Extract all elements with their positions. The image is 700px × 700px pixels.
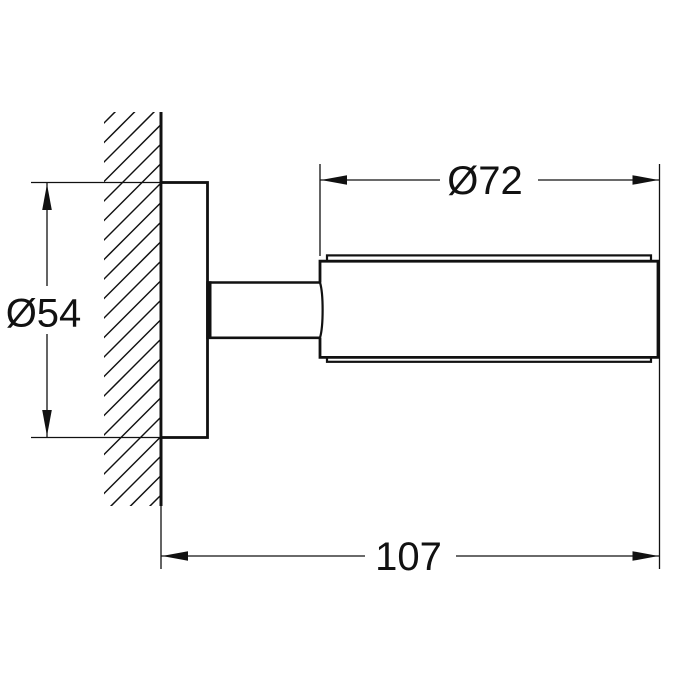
dim 72 / 107 right extension line xyxy=(659,164,661,569)
holder ring concave left face xyxy=(320,283,323,338)
svg-text:107: 107 xyxy=(375,535,442,579)
stem-plate junction edge xyxy=(207,281,212,339)
dim 107 right arrow xyxy=(633,551,659,561)
dim 107 left arrow xyxy=(162,551,188,561)
wall plate xyxy=(161,183,208,438)
dim 72 dimension line left segment xyxy=(320,179,440,181)
dim 107 dimension line right segment xyxy=(456,555,659,557)
holder ring flange xyxy=(327,255,651,361)
dim 54 top extension line xyxy=(31,182,161,184)
dim 54 dimension line bottom segment xyxy=(46,334,48,438)
dim 107 dimension line left segment xyxy=(161,555,365,557)
dim 72 left extension line xyxy=(319,164,321,256)
dim 72 left arrow xyxy=(321,175,347,185)
dim 72 right arrow xyxy=(633,175,659,185)
mounting stem xyxy=(208,283,321,338)
svg-text:Ø54: Ø54 xyxy=(6,292,82,336)
dim 54 bottom extension line xyxy=(31,437,161,439)
dim 54 bottom arrow xyxy=(42,410,52,436)
svg-text:Ø72: Ø72 xyxy=(447,159,523,203)
dim 107 left extension line xyxy=(160,506,162,569)
dim 54 dimension line top segment xyxy=(46,183,48,287)
dim 54 top arrow xyxy=(42,184,52,210)
wall hatching xyxy=(77,0,656,579)
holder ring body xyxy=(320,261,658,357)
wall line xyxy=(160,112,163,506)
dim 72 dimension line right segment xyxy=(538,179,659,181)
